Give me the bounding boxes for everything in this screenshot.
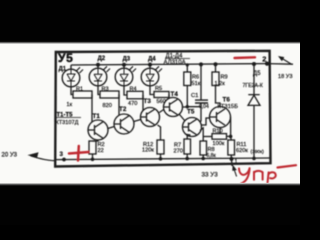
svg-text:7ГЕ2А-К: 7ГЕ2А-К xyxy=(243,83,263,89)
svg-text:Т2: Т2 xyxy=(119,106,127,113)
svg-text:Т5: Т5 xyxy=(187,109,195,116)
svg-text:820: 820 xyxy=(103,103,112,109)
svg-text:У5: У5 xyxy=(58,51,73,65)
svg-text:КТ3107Д: КТ3107Д xyxy=(56,120,79,126)
svg-text:R5: R5 xyxy=(155,86,162,92)
svg-text:R3: R3 xyxy=(102,86,109,92)
svg-text:470: 470 xyxy=(128,101,137,107)
svg-text:R9: R9 xyxy=(221,74,228,80)
svg-text:270: 270 xyxy=(174,149,183,155)
svg-text:22: 22 xyxy=(98,148,104,154)
svg-text:R1: R1 xyxy=(76,86,83,92)
svg-text:(390к): (390к) xyxy=(251,149,265,155)
svg-text:Д5: Д5 xyxy=(253,71,261,77)
svg-text:1: 1 xyxy=(235,159,238,165)
svg-text:6,8к: 6,8к xyxy=(207,153,217,159)
svg-text:3: 3 xyxy=(60,151,64,158)
svg-text:R4: R4 xyxy=(130,87,137,93)
svg-text:33 У3: 33 У3 xyxy=(202,171,219,178)
svg-text:560: 560 xyxy=(157,99,166,105)
svg-text:Д2: Д2 xyxy=(98,56,106,62)
svg-text:Д1: Д1 xyxy=(59,67,67,73)
svg-text:Т4: Т4 xyxy=(171,91,179,98)
svg-text:20 У3: 20 У3 xyxy=(2,152,18,158)
svg-text:51к: 51к xyxy=(192,81,201,87)
svg-text:0,04: 0,04 xyxy=(199,104,209,110)
svg-text:100к: 100к xyxy=(213,141,225,147)
svg-text:2: 2 xyxy=(262,54,266,63)
svg-text:Д4: Д4 xyxy=(148,57,156,63)
svg-text:Т6: Т6 xyxy=(223,96,231,103)
svg-text:АЛ310А: АЛ310А xyxy=(164,60,186,66)
svg-text:Д3: Д3 xyxy=(123,57,131,63)
svg-text:R6: R6 xyxy=(192,74,199,80)
svg-text:1,2к: 1,2к xyxy=(215,81,226,87)
svg-text:620к: 620к xyxy=(236,148,248,154)
svg-text:Т3: Т3 xyxy=(144,98,152,105)
svg-text:1к: 1к xyxy=(67,102,73,108)
svg-text:120к: 120к xyxy=(142,148,154,154)
svg-text:18 У3: 18 У3 xyxy=(278,74,292,80)
svg-text:С1: С1 xyxy=(191,93,198,99)
svg-text:КТ315Б: КТ315Б xyxy=(218,104,239,110)
svg-text:Т1: Т1 xyxy=(93,113,101,120)
svg-text:R10: R10 xyxy=(213,128,223,134)
